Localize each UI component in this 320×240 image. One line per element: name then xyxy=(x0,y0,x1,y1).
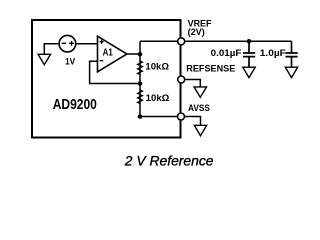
wire: feedback from divider midpoint to - input xyxy=(90,61,139,83)
junction node (rail bottom / AVSS) xyxy=(138,114,143,119)
wire: vertical rail x=140 xyxy=(139,41,141,116)
svg-text:(2V): (2V) xyxy=(188,27,205,38)
svg-text:0.01µF: 0.01µF xyxy=(211,48,242,59)
minus sign (source) xyxy=(62,42,66,44)
junction node (op-amp output / rail) xyxy=(138,52,143,57)
svg-text:10kΩ: 10kΩ xyxy=(146,93,170,104)
pin AVSS xyxy=(178,113,185,120)
voltage source V1 1V xyxy=(59,35,76,52)
plus sign (op-amp) xyxy=(100,40,104,44)
capacitor C2 1.0uF xyxy=(286,41,298,67)
minus sign (op-amp) xyxy=(100,60,104,62)
junction node (divider midpoint) xyxy=(138,81,143,86)
svg-text:AD9200: AD9200 xyxy=(53,97,97,113)
resistor R2 10k xyxy=(138,90,143,104)
capacitor C1 0.01uF xyxy=(243,41,255,67)
wire: source left terminal to ground stub xyxy=(44,44,58,55)
ground (C2) xyxy=(285,67,297,77)
svg-text:REFSENSE: REFSENSE xyxy=(186,64,235,75)
wire: REFSENSE pin to ground xyxy=(185,80,200,88)
ground (AVSS) xyxy=(194,125,206,135)
wire: AVSS pin to ground xyxy=(185,117,200,126)
wire: op-amp output to rail xyxy=(127,53,140,55)
ground (left of 1V source) xyxy=(38,54,50,64)
svg-text:AVSS: AVSS xyxy=(188,103,210,114)
svg-text:1V: 1V xyxy=(65,56,76,67)
wire: rail bottom to AVSS pin xyxy=(140,116,178,118)
svg-text:2 V Reference: 2 V Reference xyxy=(124,154,214,170)
wire: VREF rail to capacitors xyxy=(185,40,291,42)
svg-text:10kΩ: 10kΩ xyxy=(145,62,169,73)
pin REFSENSE xyxy=(178,76,185,83)
svg-text:1.0µF: 1.0µF xyxy=(260,48,286,59)
svg-text:A1: A1 xyxy=(103,48,113,59)
pin VREF xyxy=(178,38,185,45)
chip AD9200 box xyxy=(32,20,181,138)
ground (C1) xyxy=(243,67,255,77)
junction node (cap tap) xyxy=(247,39,252,44)
resistor R1 10k xyxy=(138,61,143,75)
wire: rail top to VREF pin xyxy=(140,40,178,42)
wire: source to op-amp + input xyxy=(77,43,98,45)
ground (REFSENSE) xyxy=(194,87,206,97)
plus sign (source) xyxy=(69,41,74,46)
op-amp A1 xyxy=(98,36,127,72)
